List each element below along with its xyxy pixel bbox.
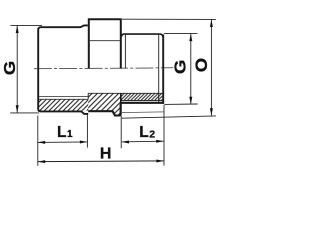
dim O: bottom extension line [122, 116, 216, 118]
dim L2: dimension line with arrows [122, 140, 164, 144]
dim L2: right extension line (shared with H) [163, 105, 165, 166]
left wall hatch [39, 99, 88, 110]
dim G right: dimension line with arrows [189, 34, 192, 105]
female thread crest line [39, 95, 88, 97]
collar bottom silhouette with hex foot [88, 104, 120, 116]
male cylinder top edge [122, 34, 163, 37]
collar right face in section [120, 93, 122, 114]
svg-text:G: G [0, 61, 19, 75]
dim G left: bottom extension line [10, 112, 39, 114]
through-bore line [88, 92, 162, 94]
female thread root line (hatch boundary) [39, 98, 88, 100]
right end face [162, 35, 164, 104]
inner edge line at thread start [124, 35, 126, 69]
dim L1: right extension line [86, 114, 88, 148]
left hex body outline [38, 25, 88, 114]
male stub hatch [121, 93, 163, 100]
dim G left: dimension line with arrows [16, 26, 19, 113]
dim G right: top extension line [164, 32, 198, 34]
dim L1: dimension line with arrows [38, 141, 88, 144]
svg-text:H: H [100, 145, 112, 162]
svg-text:L: L [57, 124, 66, 141]
male stub bottom crest edge [122, 102, 165, 104]
collar wall hatch [88, 93, 120, 115]
centerline [34, 68, 173, 69]
male thread root line [121, 100, 163, 102]
dim G right: bottom extension line [164, 103, 197, 105]
collar U1 outline [88, 19, 122, 68]
dim G left: top extension line [11, 24, 43, 26]
svg-text:O: O [192, 58, 211, 72]
dim L2: left extension line [120, 116, 122, 148]
svg-text:2: 2 [149, 129, 155, 141]
svg-text:1: 1 [67, 129, 73, 140]
bore step at female thread end [87, 93, 89, 99]
collar hex chamfer line [90, 40, 120, 42]
thread runout silhouette line [122, 111, 164, 114]
svg-text:G: G [171, 60, 190, 74]
dim O: top extension line [122, 18, 216, 20]
svg-text:L: L [139, 124, 148, 141]
dim L1: left extension line (shared with H) [37, 116, 39, 166]
dim O: dimension line with arrows [210, 20, 213, 116]
dim H: dimension line with arrows [38, 160, 164, 164]
thread end chamfer line [158, 35, 160, 104]
